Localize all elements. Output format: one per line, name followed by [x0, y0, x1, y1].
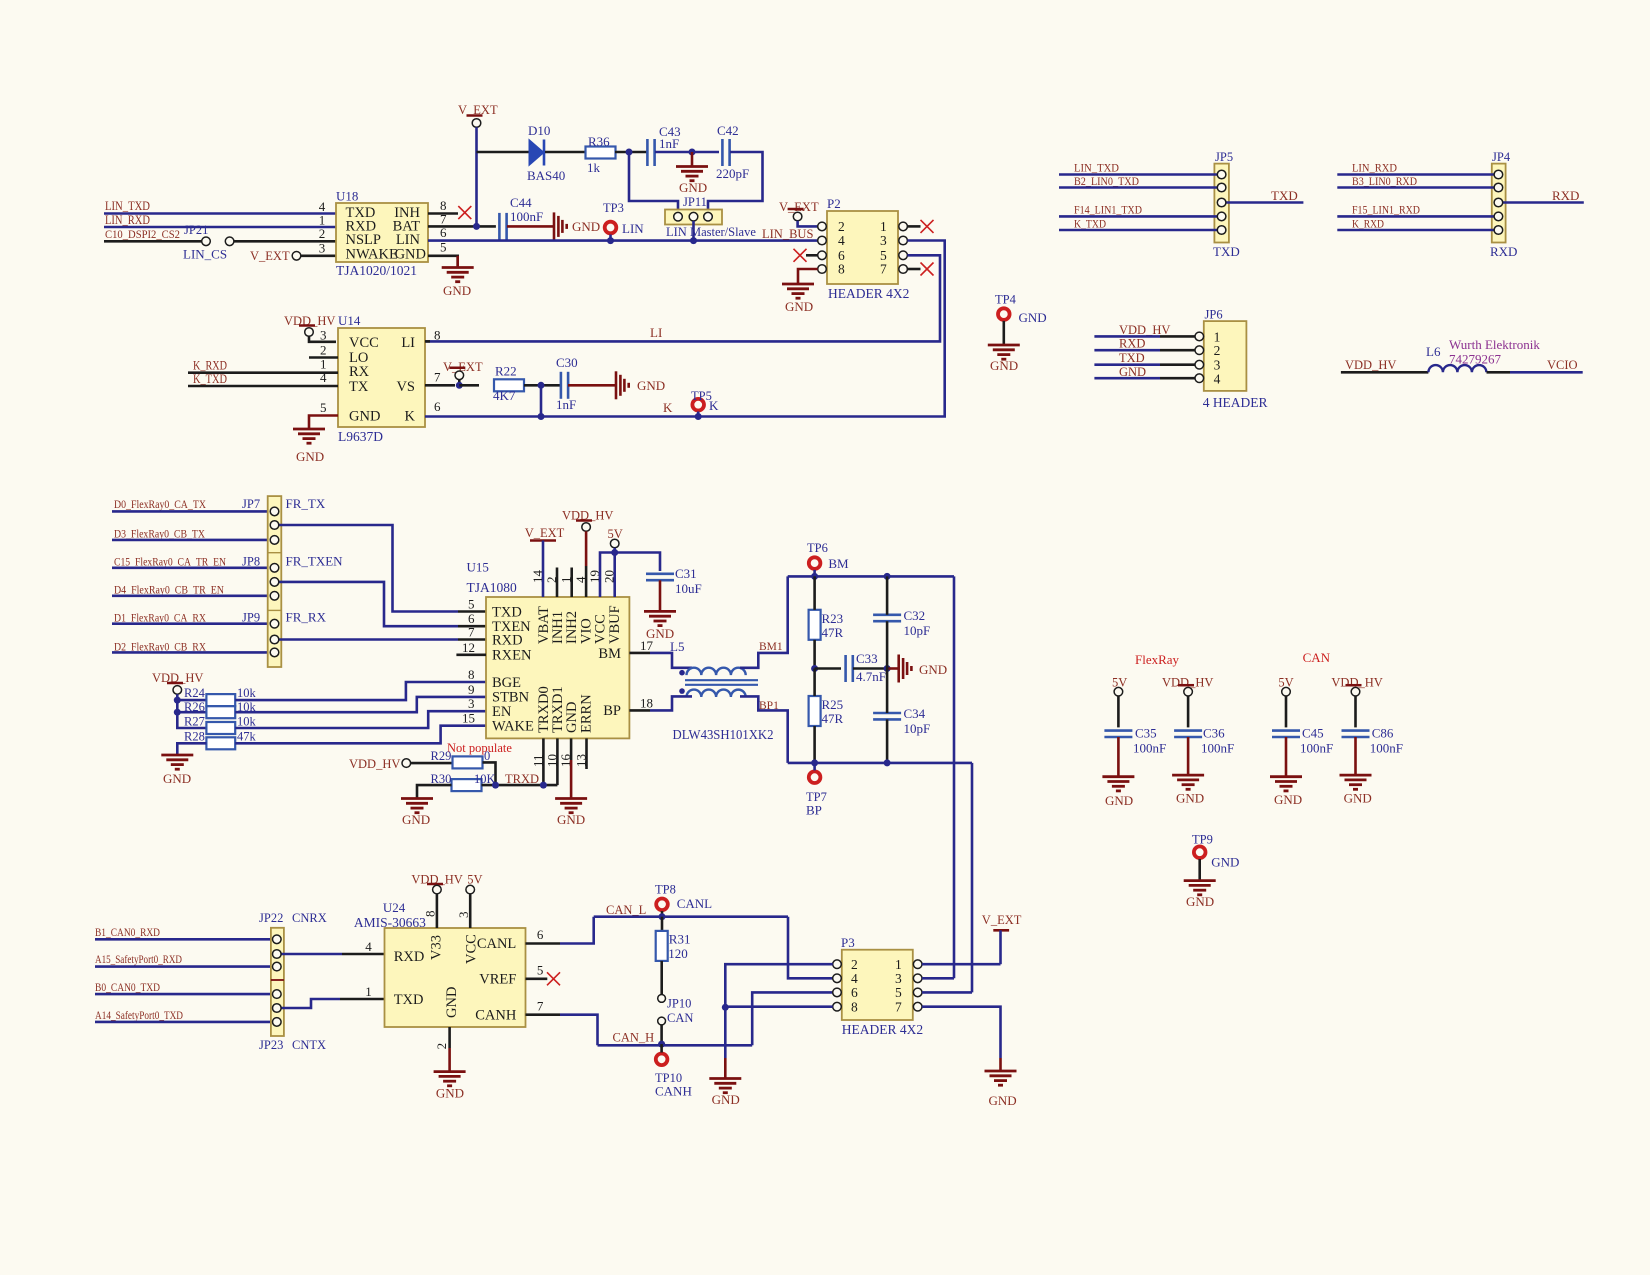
- wire B3_LIN0_RXD to JP4 pin 2: [1337, 186, 1494, 189]
- svg-text:JP6: JP6: [1205, 308, 1223, 322]
- svg-text:CNTX: CNTX: [292, 1038, 326, 1052]
- wire P3 pin 7 to ground: [922, 1007, 1001, 1058]
- svg-text:JP5: JP5: [1215, 150, 1233, 164]
- svg-text:TXD: TXD: [1213, 244, 1240, 259]
- junction 5V node: [611, 549, 618, 556]
- U18 GND pin 5: [428, 256, 458, 267]
- svg-text:HEADER 4X2: HEADER 4X2: [842, 1022, 923, 1037]
- svg-text:C45: C45: [1302, 726, 1324, 741]
- svg-text:4: 4: [1214, 372, 1221, 387]
- wire C33 node: [815, 667, 841, 670]
- svg-text:V33: V33: [428, 935, 444, 960]
- svg-text:JP21: JP21: [184, 223, 208, 237]
- wire CAN_L node to R31: [661, 917, 664, 932]
- wire K_RXD to U14 RX pin 1: [188, 371, 338, 374]
- svg-text:GND: GND: [712, 1092, 740, 1107]
- P2 pin 7 no-connect: [907, 268, 920, 271]
- capacitor C30 1nF: [561, 372, 568, 399]
- U14 LO pin 2 stub: [309, 356, 338, 359]
- jumper JP22 CNRX: [271, 928, 284, 1036]
- svg-text:A14_SafetyPort0_TXD: A14_SafetyPort0_TXD: [95, 1008, 183, 1022]
- resistor R24 10k: [206, 694, 235, 706]
- svg-text:2: 2: [1214, 343, 1221, 358]
- svg-text:VDD_HV: VDD_HV: [1119, 323, 1170, 337]
- resistor R30 10K: [452, 779, 482, 791]
- svg-text:5: 5: [895, 985, 902, 1000]
- wire C45 to ground: [1285, 737, 1288, 777]
- IC U15 TJA1080 FlexRay transceiver: [486, 597, 629, 738]
- wire B2_LIN0_TXD to JP5 pin 2: [1059, 186, 1217, 189]
- P3 right pin circles: [913, 960, 922, 969]
- wire JP10 to CAN_H rail: [660, 1025, 663, 1044]
- svg-text:C32: C32: [904, 608, 926, 623]
- svg-text:C10_DSPI2_CS2: C10_DSPI2_CS2: [105, 227, 180, 241]
- wire transformer to BP1 rail: [740, 696, 788, 763]
- wire C35 to ground: [1117, 737, 1120, 777]
- svg-text:FR_TXEN: FR_TXEN: [286, 554, 344, 569]
- U15 TRXD1 pin 10 stub: [556, 738, 559, 785]
- svg-text:R27: R27: [184, 715, 205, 729]
- jumper JP7 FR_TX: [268, 496, 282, 667]
- wire VS node to R22: [459, 384, 479, 387]
- svg-text:6: 6: [434, 399, 441, 414]
- IC U24 AMIS-30663 CAN transceiver: [385, 928, 526, 1027]
- svg-text:10k: 10k: [237, 686, 257, 700]
- junction TRXD0 node: [540, 782, 547, 789]
- svg-text:C36: C36: [1203, 726, 1225, 741]
- svg-text:10k: 10k: [237, 715, 257, 729]
- svg-text:6: 6: [851, 985, 858, 1000]
- JP4 pin circles: [1494, 170, 1503, 179]
- svg-text:8: 8: [468, 667, 475, 682]
- capacitor C33 4.7nF: [846, 655, 853, 682]
- junction R22/C30/K: [538, 382, 545, 389]
- resistor R22 4K7: [494, 379, 524, 391]
- wire C10_DSPI2_CS2 to JP21: [104, 240, 202, 243]
- wire CAN_H rail: [598, 1044, 753, 1047]
- U15 ERRN pin 13 stub: [585, 738, 588, 769]
- svg-text:C31: C31: [675, 566, 697, 581]
- svg-text:B0_CAN0_TXD: B0_CAN0_TXD: [95, 980, 160, 994]
- svg-text:TJA1020/1021: TJA1020/1021: [336, 263, 417, 278]
- svg-text:BM: BM: [828, 556, 849, 571]
- wire K_TXD to U14 TX pin 4: [188, 385, 338, 388]
- wire R30 left to ground: [417, 785, 452, 798]
- svg-text:JP11: JP11: [683, 195, 707, 209]
- svg-text:8: 8: [851, 999, 858, 1014]
- wire C15_FlexRay0_CA_TR_EN to JP8 pin 1: [112, 566, 270, 569]
- svg-text:VS: VS: [396, 379, 415, 395]
- svg-text:4: 4: [365, 939, 372, 954]
- junction TP7/R25: [811, 759, 818, 766]
- svg-text:47R: 47R: [822, 711, 844, 726]
- svg-text:GND: GND: [444, 987, 460, 1018]
- svg-text:GND: GND: [443, 283, 471, 298]
- connector P3 HEADER 4X2: [842, 950, 913, 1020]
- svg-text:R24: R24: [184, 686, 206, 700]
- svg-text:GND: GND: [349, 409, 380, 425]
- svg-text:GND: GND: [990, 358, 1018, 373]
- junction TP10/CAN_H: [658, 1041, 665, 1048]
- wire VDD_HV to C36: [1187, 696, 1190, 727]
- junction R26: [174, 709, 181, 716]
- wire R27 to U15 EN: [235, 711, 486, 728]
- testpoint TP8 CANL: [656, 899, 668, 911]
- svg-text:CAN_L: CAN_L: [606, 903, 646, 917]
- junction C32 top: [884, 573, 891, 580]
- svg-text:3: 3: [468, 696, 475, 711]
- wire R25 to BP rail: [813, 726, 816, 763]
- svg-text:R22: R22: [495, 364, 517, 379]
- IC U14 L9637D K-line transceiver: [338, 328, 425, 427]
- svg-text:6: 6: [537, 927, 544, 942]
- svg-text:B3_LIN0_RXD: B3_LIN0_RXD: [1352, 174, 1417, 188]
- svg-text:1: 1: [880, 219, 887, 234]
- svg-text:GND: GND: [679, 180, 707, 195]
- svg-text:220pF: 220pF: [716, 166, 749, 181]
- svg-text:7: 7: [434, 369, 441, 384]
- svg-text:LIN_TXD: LIN_TXD: [105, 199, 150, 213]
- svg-text:2: 2: [838, 219, 845, 234]
- sideways ground at C44: [554, 212, 567, 240]
- svg-text:C35: C35: [1135, 726, 1157, 741]
- svg-text:4.7nF: 4.7nF: [856, 669, 886, 684]
- svg-text:15: 15: [462, 711, 475, 726]
- wire P3 pin 8 to ground bus: [725, 1005, 832, 1008]
- svg-text:JP22: JP22: [259, 911, 283, 925]
- wire A14_SafetyPort0_TXD to JP23 pin 3: [95, 1021, 273, 1024]
- svg-text:LIN: LIN: [396, 232, 421, 248]
- JP22/JP23 pin circles: [273, 935, 282, 944]
- svg-text:100nF: 100nF: [1133, 741, 1166, 756]
- svg-text:CNRX: CNRX: [292, 911, 327, 925]
- svg-text:10uF: 10uF: [675, 581, 702, 596]
- svg-text:K_RXD: K_RXD: [193, 359, 227, 373]
- JP6 pin circles: [1195, 332, 1204, 341]
- capacitor C36 100nF: [1174, 731, 1202, 737]
- wire R28 to ground: [177, 743, 206, 754]
- wire V_EXT to P2 pin 2: [798, 221, 818, 227]
- junction node R36/C43/JP11: [626, 149, 633, 156]
- junction V_EXT/BAT: [473, 223, 480, 230]
- transformer L5 secondary winding: [687, 690, 746, 697]
- svg-text:JP8: JP8: [242, 555, 260, 569]
- U24 CANH pin 7 wire: [526, 1013, 561, 1016]
- svg-text:V_EXT: V_EXT: [982, 913, 1022, 927]
- capacitor C32 10pF: [873, 615, 901, 621]
- svg-text:R23: R23: [822, 611, 844, 626]
- wire D0_FlexRay0_CA_TX to JP7 pin 1: [112, 510, 270, 513]
- svg-text:CAN: CAN: [667, 1011, 693, 1025]
- svg-text:3: 3: [1214, 358, 1221, 373]
- capacitor C44 100nF: [499, 213, 506, 240]
- svg-text:TP9: TP9: [1192, 833, 1213, 847]
- svg-text:0: 0: [484, 749, 490, 763]
- wire R22 to C30: [524, 384, 561, 387]
- wire P3 pin 5 to BP rail: [922, 991, 972, 994]
- wire RXD to JP6 pin 2: [1094, 349, 1160, 352]
- testpoint TP6 BM: [809, 557, 821, 569]
- wire K_RXD to JP4 pin 5: [1337, 229, 1494, 232]
- svg-text:5: 5: [320, 400, 327, 415]
- wire C31 to ground: [659, 580, 662, 611]
- svg-text:10pF: 10pF: [904, 623, 931, 638]
- svg-text:VREF: VREF: [479, 971, 516, 987]
- svg-text:C42: C42: [717, 123, 739, 138]
- svg-text:GND: GND: [989, 1093, 1017, 1108]
- svg-text:U15: U15: [467, 560, 489, 575]
- svg-text:ERRN: ERRN: [579, 694, 595, 733]
- svg-text:TXD: TXD: [1271, 188, 1298, 203]
- resistor R29 0: [453, 756, 483, 768]
- svg-text:C34: C34: [904, 706, 926, 721]
- wire B0_CAN0_TXD to JP23 pin 1: [95, 993, 273, 996]
- svg-text:AMIS-30663: AMIS-30663: [354, 915, 426, 930]
- wire BM rail to R23: [813, 576, 816, 609]
- svg-text:5V: 5V: [467, 873, 482, 887]
- svg-text:JP9: JP9: [242, 611, 260, 625]
- wire node to JP11 pin 1: [629, 152, 678, 213]
- ground at C43: [691, 152, 694, 166]
- wire VDD_HV to V33 pin 8: [436, 894, 439, 928]
- wire 5V to C35: [1117, 696, 1120, 727]
- svg-text:RXD: RXD: [1119, 337, 1145, 351]
- svg-text:K_RXD: K_RXD: [1352, 216, 1384, 230]
- wire VDD_HV bus to resistors: [177, 694, 206, 728]
- wire C30 to ground: [568, 384, 616, 387]
- U15 INH1 pin 2 stub: [556, 568, 559, 598]
- svg-text:2: 2: [319, 226, 326, 241]
- wire 5V node to C31: [615, 553, 660, 572]
- wire F14_LIN1_TXD to JP5 pin 4: [1059, 215, 1217, 218]
- wire BP to transformer: [650, 696, 692, 710]
- wire R24 to U15 BGE: [235, 682, 486, 700]
- wire R23 to C33 node: [813, 640, 816, 669]
- svg-text:C15_FlexRay0_CA_TR_EN: C15_FlexRay0_CA_TR_EN: [114, 555, 226, 569]
- junction TP6/R23: [811, 573, 818, 580]
- svg-text:K_TXD: K_TXD: [1074, 216, 1106, 230]
- svg-text:VDD_HV: VDD_HV: [349, 757, 400, 771]
- wire JP21 to U18 NSLP pin 2: [234, 240, 336, 243]
- wire C33 to GND node: [853, 667, 887, 670]
- wire P3 pin 2 to ground bus: [725, 964, 832, 1007]
- wire JP23 pin 2 to U24 TXD: [281, 999, 340, 1008]
- svg-text:JP10: JP10: [667, 996, 691, 1010]
- wire to sideways ground: [887, 667, 899, 670]
- svg-text:GND: GND: [1105, 793, 1133, 808]
- svg-text:47k: 47k: [237, 730, 257, 744]
- connector JP5 TXD select: [1214, 164, 1229, 243]
- JP5 pin circles: [1217, 170, 1226, 179]
- svg-text:TX: TX: [349, 379, 369, 395]
- svg-text:VCIO: VCIO: [1547, 358, 1578, 372]
- svg-text:D3_FlexRay0_CB_TX: D3_FlexRay0_CB_TX: [114, 527, 205, 541]
- svg-text:RXD: RXD: [394, 949, 425, 965]
- sideways ground at C33: [899, 655, 912, 683]
- svg-text:F14_LIN1_TXD: F14_LIN1_TXD: [1074, 203, 1142, 217]
- svg-text:JP23: JP23: [259, 1038, 283, 1052]
- JP7/JP8/JP9 pin circles: [270, 507, 279, 516]
- resistor R25 47R: [809, 696, 821, 726]
- svg-text:C33: C33: [856, 651, 878, 666]
- svg-text:R31: R31: [669, 932, 691, 947]
- svg-text:LIN_RXD: LIN_RXD: [1352, 161, 1397, 175]
- svg-text:GND: GND: [1211, 855, 1239, 870]
- junction R23/C33: [811, 665, 818, 672]
- svg-text:RXEN: RXEN: [492, 648, 532, 664]
- wire C33 node to C34: [886, 669, 889, 714]
- svg-text:7: 7: [468, 625, 475, 640]
- testpoint TP3 LIN: [605, 222, 617, 234]
- testpoint TP9 GND: [1194, 846, 1206, 858]
- wire F15_LIN1_RXD to JP4 pin 4: [1337, 215, 1494, 218]
- wire VDD_HV to U14 VCC pin 3: [309, 336, 336, 342]
- svg-text:3: 3: [456, 912, 471, 919]
- capacitor C42 220pF: [722, 139, 729, 166]
- svg-text:GND: GND: [1186, 894, 1214, 909]
- svg-text:R29: R29: [431, 749, 452, 763]
- wire R36 to node at C43: [615, 151, 647, 154]
- svg-text:LIN_BUS: LIN_BUS: [762, 227, 813, 241]
- svg-text:R26: R26: [184, 700, 205, 714]
- wire R31 to JP10: [660, 961, 663, 995]
- resistor R28 47k: [206, 737, 235, 749]
- svg-text:GND: GND: [557, 812, 585, 827]
- svg-text:L9637D: L9637D: [338, 429, 383, 444]
- jumper JP21: [202, 237, 211, 246]
- U24 CANL pin 6 wire: [526, 942, 561, 945]
- U15 INH2 pin 1 stub: [570, 568, 573, 598]
- svg-text:A15_SafetyPort0_RXD: A15_SafetyPort0_RXD: [95, 952, 182, 966]
- svg-text:100nF: 100nF: [1300, 741, 1333, 756]
- svg-text:C30: C30: [556, 355, 578, 370]
- svg-text:U24: U24: [383, 900, 406, 915]
- wire C42 to JP11 pin 3: [708, 152, 763, 213]
- svg-text:TXD: TXD: [394, 992, 424, 1008]
- wire CAN_H rail to P3 pin 6: [752, 992, 833, 1045]
- svg-text:8: 8: [434, 327, 441, 342]
- svg-text:10pF: 10pF: [904, 721, 931, 736]
- P2 pin 1 no-connect: [907, 225, 920, 228]
- wire C44 to ground: [507, 225, 554, 228]
- wire V_EXT bar to VBAT pin 14: [542, 541, 545, 598]
- U18 INH pin 8 stub - not connected: [428, 212, 458, 215]
- P2 right pin circles: [899, 222, 908, 231]
- svg-text:RXD: RXD: [492, 632, 523, 648]
- svg-text:1nF: 1nF: [659, 136, 679, 151]
- svg-text:C44: C44: [510, 195, 532, 210]
- svg-text:2: 2: [851, 957, 858, 972]
- svg-text:FR_TX: FR_TX: [286, 496, 326, 511]
- svg-text:U18: U18: [336, 189, 358, 204]
- svg-text:HEADER 4X2: HEADER 4X2: [828, 286, 909, 301]
- testpoint TP7 BP: [809, 771, 821, 783]
- svg-text:8: 8: [422, 911, 437, 918]
- svg-text:1: 1: [1214, 329, 1221, 344]
- wire P3 pin 3 to BM rail: [922, 977, 954, 980]
- svg-text:K: K: [663, 400, 673, 415]
- wire C34 to BP rail: [886, 719, 889, 763]
- svg-text:TXD: TXD: [1119, 351, 1145, 365]
- svg-text:1: 1: [365, 984, 372, 999]
- wire BM to transformer: [650, 653, 692, 668]
- junction R29/R30 node: [492, 782, 499, 789]
- svg-text:LIN_TXD: LIN_TXD: [1074, 161, 1119, 175]
- wire BP rail: [788, 762, 972, 765]
- inductor L6 74279267 Wurth Elektronik: [1428, 365, 1486, 372]
- wire BP rail down to P3 pin 5: [971, 763, 974, 993]
- svg-text:K: K: [709, 398, 719, 413]
- svg-text:GND: GND: [1274, 792, 1302, 807]
- svg-text:CANH: CANH: [475, 1008, 517, 1024]
- svg-text:5: 5: [537, 963, 544, 978]
- svg-text:WAKE: WAKE: [492, 719, 534, 735]
- svg-text:VCC: VCC: [349, 335, 379, 351]
- svg-text:LI: LI: [401, 335, 415, 351]
- svg-text:LIN_RXD: LIN_RXD: [105, 213, 150, 227]
- wire VDD_HV to VIO pin 4: [585, 531, 588, 566]
- wire 5V to VCC pin 3: [469, 894, 472, 928]
- svg-text:RXD: RXD: [1490, 244, 1517, 259]
- svg-text:Not populate: Not populate: [447, 741, 512, 755]
- svg-text:TP4: TP4: [995, 293, 1017, 307]
- svg-text:FR_RX: FR_RX: [286, 610, 327, 625]
- transformer L5 core: [685, 679, 758, 681]
- svg-text:V_EXT: V_EXT: [250, 249, 290, 263]
- wire 5V to C45: [1285, 696, 1288, 727]
- svg-text:P2: P2: [827, 196, 841, 211]
- svg-text:1: 1: [895, 957, 902, 972]
- U15 GND pin 16 to ground: [570, 738, 573, 760]
- L5 polarity dot secondary: [679, 688, 685, 694]
- svg-text:CANH: CANH: [655, 1084, 692, 1099]
- svg-text:GND: GND: [395, 247, 426, 263]
- jumper JP10 CAN: [658, 995, 666, 1003]
- wire CAN_L rail to P3 pin 4: [788, 917, 833, 979]
- svg-text:7: 7: [537, 998, 544, 1013]
- svg-text:120: 120: [668, 946, 688, 961]
- wire TXD to JP6 pin 3: [1094, 363, 1160, 366]
- wire LIN_TXD to U18 TXD: [104, 212, 336, 215]
- svg-text:V_EXT: V_EXT: [525, 526, 565, 540]
- resistor R26 10k: [206, 706, 235, 718]
- svg-text:4: 4: [838, 233, 845, 248]
- svg-text:LIN: LIN: [622, 221, 644, 236]
- svg-text:R25: R25: [822, 697, 844, 712]
- P2 pin 6 no-connect: [806, 254, 818, 257]
- svg-text:B1_CAN0_RXD: B1_CAN0_RXD: [95, 925, 160, 939]
- testpoint TP4 GND: [998, 308, 1010, 320]
- U15 BP pin 18 wire: [629, 709, 650, 712]
- wire C30 node down to K line: [540, 385, 543, 416]
- wire ground bus to GND: [724, 1007, 727, 1058]
- svg-text:RX: RX: [349, 364, 370, 380]
- svg-text:TJA1080: TJA1080: [467, 580, 517, 595]
- diode D10 BAS40: [529, 140, 544, 166]
- wire C43 to C42: [655, 151, 719, 154]
- svg-text:100nF: 100nF: [1201, 741, 1234, 756]
- svg-text:BAS40: BAS40: [527, 168, 565, 183]
- U14 LI pin 8 wire: [425, 340, 430, 343]
- testpoint TP10 CANH: [656, 1054, 668, 1066]
- svg-text:4K7: 4K7: [493, 388, 516, 403]
- svg-text:NWAKE: NWAKE: [346, 247, 398, 263]
- wire D3_FlexRay0_CB_TX to JP7 pin 3: [112, 539, 270, 542]
- svg-text:5: 5: [468, 597, 475, 612]
- P3 left pin circles: [833, 960, 842, 969]
- svg-text:R36: R36: [588, 134, 610, 149]
- svg-text:7: 7: [880, 262, 887, 277]
